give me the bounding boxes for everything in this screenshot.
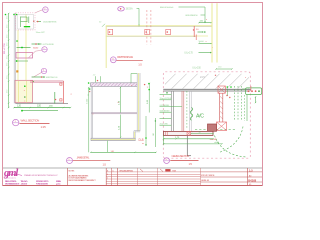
svg-text:REG.OFFICE:: REG.OFFICE:: [5, 181, 17, 183]
detail4 stud red pair: [181, 91, 183, 131]
detail4 green dashed vlines right: [234, 86, 236, 121]
detail1 left dimension chain: [8, 13, 10, 108]
detail2 right wall with yellow core: [136, 73, 138, 131]
svg-text:x: x: [88, 95, 89, 97]
svg-text:x: x: [93, 114, 94, 116]
detail title 2 circle: [67, 158, 73, 164]
titleblock wide rows right zone: [201, 171, 263, 173]
detail3 band bottom edge: [106, 36, 196, 38]
detail1 inner gray box: [17, 15, 33, 30]
detail title 1 underline: [20, 122, 50, 124]
svg-text:D-8: D-8: [139, 138, 144, 142]
detail4 right small dim: [255, 97, 257, 104]
svg-text:MUMBAI 400001 IN: MUMBAI 400001 IN: [5, 183, 20, 186]
detail3 left end yellow drop: [105, 26, 107, 68]
detail2 right dim vline B: [145, 116, 147, 146]
annotation row F under circle: [32, 76, 44, 78]
svg-text:PRASAD GROUP ARCHITECTS ENGG L: PRASAD GROUP ARCHITECTS ENGG LLP: [24, 174, 58, 177]
detail4 break squiggle: [190, 108, 193, 121]
svg-text:WALL SECTION: WALL SECTION: [21, 119, 40, 123]
detail1 bottom second green line: [22, 110, 58, 112]
titleblock top line: [3, 167, 262, 169]
wall end cap red: [63, 81, 65, 104]
titleblock fine rows left zone: [106, 171, 200, 173]
detail4 door swing arcs dashed: [219, 127, 243, 153]
titleblock bottom line: [3, 185, 262, 187]
detail3 stud box 1: [108, 29, 113, 34]
detail3 callout ellipse: [118, 7, 125, 11]
detail1 yellow stud lines: [17, 30, 19, 81]
detail2 right dim vline C: [154, 118, 156, 147]
detail3 dashed centerlines: [146, 10, 148, 45]
svg-text:x: x: [227, 91, 228, 93]
svg-text:FFL+2.750: FFL+2.750: [4, 43, 6, 54]
callout circle D2: [42, 47, 47, 52]
callout circle D3: [41, 68, 46, 73]
detail4 stud gray pair: [189, 91, 191, 131]
detail4 green dashed vline: [186, 91, 188, 128]
svg-text:1:5: 1:5: [249, 169, 253, 172]
svg-text:PARTITION PLAN: PARTITION PLAN: [117, 55, 133, 59]
detail2 left wall: [90, 86, 92, 138]
detail title 2 underline: [73, 160, 111, 162]
right wall yellow double vline: [211, 3, 213, 62]
detail2 left wall dots: [89, 88, 91, 90]
svg-text:WEB:: WEB:: [56, 181, 61, 183]
svg-text:LVL+2.50: LVL+2.50: [193, 68, 202, 70]
detail3 top right dim: [199, 22, 212, 24]
detail3 stud box 2: [145, 29, 150, 34]
leader to callout circle D3: [32, 72, 42, 77]
detail3 right joint red vline: [193, 26, 195, 37]
detail2 bottom leader vline: [107, 141, 109, 153]
detail4 dim below floor 2: [164, 143, 223, 145]
svg-text:NOTES: NOTES: [69, 170, 75, 172]
green vline left of end cap: [54, 92, 56, 104]
detail3 band top edge: [106, 25, 212, 27]
wall corner box with hatch fill: [15, 80, 32, 102]
detail1 top green dots: [5, 14, 7, 16]
svg-text:12mm GYP: 12mm GYP: [36, 32, 46, 34]
detail1 green profile B: [20, 17, 22, 28]
detail4 green marks beside column box: [227, 86, 229, 88]
detail4 stud dark pair: [170, 91, 172, 131]
svg-text:TEL.NO:: TEL.NO:: [21, 181, 29, 183]
svg-text:PUNE 411001 IN: PUNE 411001 IN: [36, 183, 48, 186]
sheet border frame: [3, 3, 263, 186]
svg-text:FITOUT OFFICE: FITOUT OFFICE: [201, 175, 215, 177]
detail4 dim below floor 1: [164, 138, 214, 140]
detail3 label2 leader: [179, 7, 206, 22]
detail title 1 circle: [13, 119, 19, 125]
detail2 bottom wall: [91, 138, 135, 140]
detail4 leader rows left: [160, 93, 172, 95]
detail4 column shaft double red: [219, 93, 221, 122]
annotation row E: [16, 60, 18, 62]
leader to callout circle D1: [35, 10, 42, 13]
detail2 top small dims: [95, 76, 97, 82]
detail1 bottom dimension line: [14, 107, 71, 109]
svg-text:LVL+2.75: LVL+2.75: [185, 53, 194, 55]
detail2 right dim vline A: [148, 83, 150, 113]
detail2 above-band green bracket: [130, 74, 132, 83]
detail2 inner dim vline upper: [120, 87, 122, 113]
detail3 callout leader: [137, 8, 140, 25]
detail3 lower right dim: [199, 42, 212, 44]
svg-text:ANGLE 50x50x6: ANGLE 50x50x6: [160, 6, 174, 9]
detail2 interior partition line: [92, 112, 138, 114]
callout circle D1 top: [43, 7, 49, 13]
svg-text:x: x: [143, 143, 144, 145]
svg-text:a s s o c i a t e s: a s s o c i a t e s: [5, 177, 16, 180]
annotation row C: [17, 47, 31, 49]
detail4 downpipe below floor: [186, 135, 188, 156]
horizontal wall top lines: [30, 80, 64, 82]
svg-text:3.000: 3.000: [87, 98, 89, 104]
detail4 top small dim: [216, 68, 232, 70]
horizontal wall bottom line: [16, 103, 69, 105]
detail2 hatched wall band: [88, 82, 90, 84]
svg-text:B-03.08: B-03.08: [248, 178, 256, 182]
detail4 fixture box: [246, 88, 262, 95]
svg-text:SKIRTING 100: SKIRTING 100: [46, 77, 59, 79]
detail1 bright green bar: [24, 26, 30, 27]
svg-text:JAMB DETAIL: JAMB DETAIL: [77, 156, 91, 159]
detail2 step: [134, 130, 140, 132]
annotation row B: [32, 43, 42, 45]
detail4 pipe cross in floor: [187, 131, 191, 135]
annotation row A arrow+text: [37, 21, 42, 23]
svg-text:x: x: [24, 101, 25, 103]
detail title 4 circle: [164, 158, 170, 164]
detail title 3 underline: [117, 59, 143, 61]
svg-text:REPORT DISCREPANCY TO ARCHITEC: REPORT DISCREPANCY TO ARCHITECT: [69, 179, 97, 182]
leader to callout circle D2: [29, 50, 42, 57]
svg-text:1:25: 1:25: [41, 125, 47, 129]
detail3 joint green arrow: [198, 31, 203, 33]
svg-text:STUDIO OFFC:: STUDIO OFFC:: [36, 181, 49, 183]
detail2 left long dim vline: [88, 87, 90, 152]
detail4 lower column box with X: [217, 122, 227, 131]
detail4 floor band: [164, 131, 214, 135]
svg-text:25x50 BATTENS: 25x50 BATTENS: [43, 21, 57, 24]
svg-text:1: 1: [107, 178, 108, 180]
detail4 dashed border: [163, 72, 250, 158]
svg-text:REV DESCRIPTION: REV DESCRIPTION: [120, 170, 134, 172]
detail4 maroon block: [208, 124, 217, 131]
svg-text:GI RUNNER 50: GI RUNNER 50: [185, 15, 198, 17]
detail title 4 underline: [170, 159, 198, 161]
svg-text:GYPSUM BD: GYPSUM BD: [43, 44, 55, 46]
detail1 wall face double line: [13, 13, 15, 104]
detail4 slab hatch lines: [160, 74, 275, 90]
detail title 3 circle: [110, 57, 116, 63]
detail4 slab soffit lines: [163, 88, 250, 90]
svg-text:A/C: A/C: [196, 113, 204, 119]
detail2 bottom dim line: [91, 151, 156, 153]
detail3 stud box 3: [166, 29, 171, 34]
orange block: [16, 70, 18, 72]
titleblock verticals: [66, 168, 68, 186]
svg-text:CEILING SECTION: CEILING SECTION: [172, 154, 190, 158]
svg-text:24.5: 24.5: [200, 76, 205, 79]
detail1 dashed zoom box: [16, 13, 36, 30]
magenta box row D: [16, 53, 33, 59]
svg-text:150 DIA: 150 DIA: [126, 8, 134, 11]
svg-text:0: 0: [107, 174, 108, 176]
detail4 column box with X: [218, 86, 225, 93]
detail4 dim inside floor right: [191, 133, 213, 135]
svg-text:A3: A3: [249, 174, 251, 177]
detail2 inner dim vline lower: [120, 115, 122, 138]
svg-text:LEVEL 03: LEVEL 03: [201, 180, 210, 182]
svg-text:TWR: TWR: [172, 170, 177, 172]
